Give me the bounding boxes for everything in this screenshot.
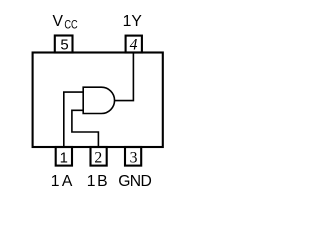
wire pin2 to gate input B [72, 110, 99, 146]
IC package body U1 [33, 53, 163, 148]
svg-text:1Y: 1Y [123, 13, 143, 30]
svg-text:4: 4 [130, 37, 138, 54]
svg-text:5: 5 [60, 38, 68, 54]
svg-text:GND: GND [118, 173, 151, 190]
svg-text:CC: CC [64, 19, 78, 32]
wire gate output to pin4 [115, 53, 134, 101]
svg-text:3: 3 [130, 149, 138, 166]
svg-text:1A: 1A [51, 173, 75, 190]
svg-text:2: 2 [94, 149, 102, 166]
svg-text:1B: 1B [87, 173, 109, 190]
pin 3 box [125, 147, 141, 166]
svg-text:1: 1 [60, 150, 68, 166]
pin 4 box [126, 36, 142, 53]
svg-text:V: V [53, 13, 64, 30]
pin 1 box [56, 147, 72, 166]
pin 2 box [91, 147, 107, 166]
AND gate U1A [83, 87, 114, 113]
pin 5 box [55, 36, 73, 53]
wire pin1 to gate input A [64, 92, 83, 146]
